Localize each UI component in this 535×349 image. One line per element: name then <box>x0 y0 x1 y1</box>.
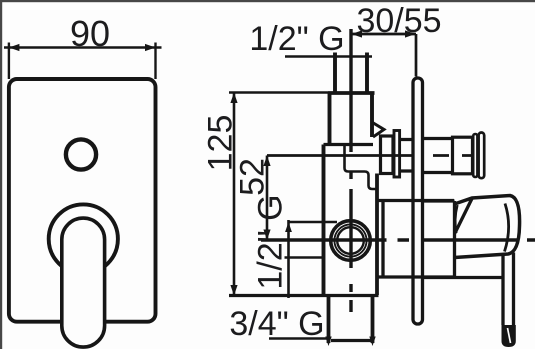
outlet centerline <box>267 154 472 157</box>
svg-text:90: 90 <box>70 13 110 54</box>
escutcheon circle <box>49 204 118 273</box>
scan border top <box>0 0 535 2</box>
grip base wedge <box>455 199 472 234</box>
dim 52 line <box>266 156 269 241</box>
vertical centerline <box>349 29 352 312</box>
sleeve bottom edge <box>377 275 454 278</box>
label 1/2 G side arrow <box>285 222 292 232</box>
riser pipe 1/2 <box>335 53 367 94</box>
lever handle (front) <box>62 218 105 347</box>
dim 30/55 arrow left <box>352 30 363 37</box>
label 3/4 G underline <box>269 337 329 340</box>
wall plate (side, capsule) <box>413 78 423 324</box>
dim 90 extension left <box>8 43 10 80</box>
diverter button <box>66 139 96 169</box>
dim 52 arrow bottom <box>263 230 270 241</box>
port tangent line top <box>289 221 338 224</box>
scan border left <box>0 0 2 349</box>
lever bar down <box>503 253 514 326</box>
sleeve top edge <box>377 199 454 202</box>
outlet nut <box>453 137 473 174</box>
grip base crescent <box>455 205 457 233</box>
bottom outlet pipe 3/4 <box>329 296 373 344</box>
valve body right edge <box>375 174 379 296</box>
outlet end cap <box>479 133 485 179</box>
dim 90 arrow right <box>145 44 156 51</box>
dim 30/55 arrow right <box>405 30 416 37</box>
cartridge step inside body <box>345 145 378 189</box>
bottom outlet end line <box>331 339 373 342</box>
chamfer wedge <box>373 123 385 138</box>
dim 125 line <box>233 93 236 296</box>
label 1/2 G side leader line <box>287 220 290 298</box>
valve body bottom edge <box>229 294 379 297</box>
dim 52 arrow top <box>263 156 270 167</box>
grip end inner arc <box>505 204 509 252</box>
port inner circle <box>337 227 364 254</box>
wall plate (front) <box>9 79 156 322</box>
inlet block <box>330 93 373 145</box>
dim 90 line <box>4 46 162 49</box>
svg-text:52: 52 <box>234 158 272 196</box>
label 1/2 G top underline <box>285 55 372 58</box>
bottom pipe arrow left <box>325 337 331 347</box>
sleeve ring <box>381 201 384 278</box>
outlet end washer <box>473 134 477 177</box>
bottom pipe arrow right <box>369 337 375 347</box>
outlet pipe to plate <box>400 140 413 172</box>
port outer circle <box>331 221 371 261</box>
lever tip highlight <box>508 328 511 343</box>
outlet block <box>381 136 394 174</box>
handle neck (side) <box>423 201 503 278</box>
valve body left edge <box>322 145 326 296</box>
dim 90 extension right <box>154 43 156 80</box>
port tangent line bottom <box>285 256 324 259</box>
dim 30/55 right extension <box>415 34 418 77</box>
riser shoulder <box>328 91 375 95</box>
lever tip <box>502 325 516 347</box>
port thread circle <box>334 224 366 256</box>
dim 125 top extension <box>229 91 328 94</box>
handle grip (side) <box>455 196 520 258</box>
main horizontal centerline <box>261 238 535 241</box>
dim 125 arrow bottom <box>230 285 237 296</box>
svg-text:1/2" G: 1/2" G <box>252 194 290 289</box>
outlet flange <box>394 131 400 178</box>
dim 125 arrow top <box>230 93 237 104</box>
dim 90 arrow left <box>9 44 20 51</box>
svg-text:1/2" G: 1/2" G <box>249 20 344 58</box>
valve body top edge <box>324 143 374 146</box>
outlet pipe after plate <box>422 139 454 173</box>
dim 30/55 line <box>351 33 416 36</box>
